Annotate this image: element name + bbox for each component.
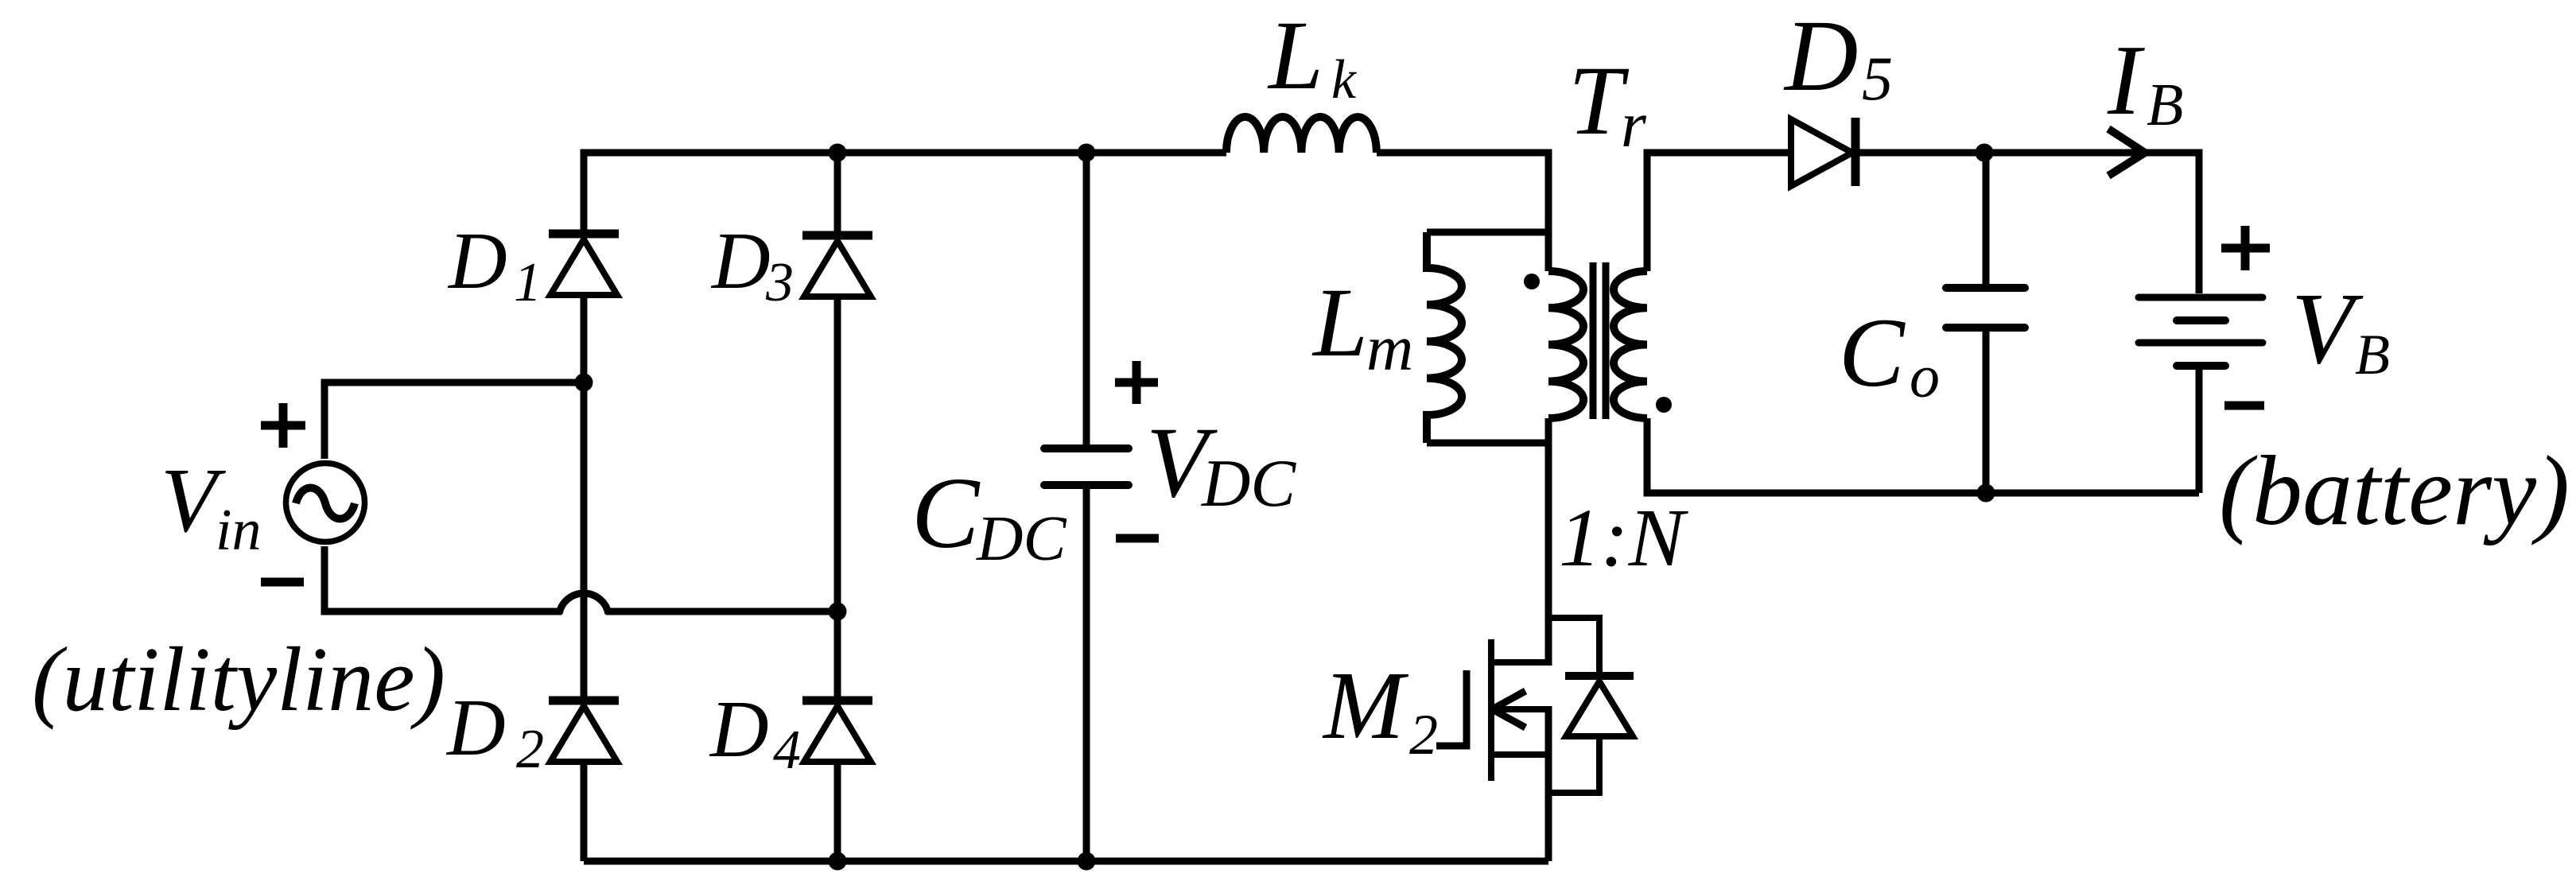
svg-text:D: D <box>710 216 771 306</box>
label VB <box>2291 272 2390 386</box>
svg-text:V: V <box>2291 272 2364 385</box>
svg-text:L: L <box>1267 1 1323 110</box>
transformer primary phase dot <box>1524 274 1540 289</box>
mosfet M2 drain wire from transformer <box>1545 418 1552 666</box>
node B junction dot (D3/D4 midpoint) <box>829 603 847 621</box>
svg-text:D: D <box>709 685 769 774</box>
svg-text:C: C <box>1839 298 1906 407</box>
transformer secondary phase dot <box>1656 397 1672 413</box>
wire from Lk to transformer primary top <box>1377 153 1548 271</box>
label D3 <box>710 216 794 313</box>
node junction dot Co bottom <box>1977 484 1995 503</box>
svg-text:m: m <box>1366 312 1413 384</box>
battery VB plates <box>2139 297 2263 366</box>
mosfet M2 drain lead <box>1491 659 1548 666</box>
svg-text:1:N: 1:N <box>1559 492 1689 584</box>
label VDC <box>1146 407 1296 521</box>
svg-text:2: 2 <box>516 719 544 780</box>
svg-text:M: M <box>1322 652 1409 759</box>
wire secondary bottom rail to battery <box>1647 418 2199 493</box>
wire D5 cathode to battery top <box>1855 153 2199 293</box>
diode D3 <box>802 235 872 297</box>
capacitor Co bottom lead <box>1983 328 1990 493</box>
label D5 <box>1783 0 1893 113</box>
wire Vin minus to node B <box>606 608 837 615</box>
label D4 <box>709 685 801 781</box>
mosfet M2 arrow <box>1495 691 1525 728</box>
svg-text:o: o <box>1910 344 1940 410</box>
node junction dot top CDC <box>1078 144 1096 162</box>
inductor Lk coil <box>1226 117 1377 153</box>
label D2 <box>445 683 544 780</box>
mosfet M2 gate lead <box>1436 670 1467 746</box>
wire mosfet source to bottom rail <box>1545 706 1552 861</box>
label M2 <box>1322 652 1438 767</box>
inductor Lm bottom wire <box>1427 440 1548 447</box>
svg-text:1: 1 <box>514 252 542 313</box>
svg-text:L: L <box>1311 268 1368 377</box>
svg-text:2: 2 <box>1409 703 1438 767</box>
label IB <box>2107 25 2183 138</box>
svg-text:(battery): (battery) <box>2219 437 2570 546</box>
label Vin <box>161 450 262 563</box>
transformer T1 secondary winding <box>1614 271 1647 418</box>
svg-text:DC: DC <box>1201 446 1296 521</box>
plus sign Vin <box>261 403 305 448</box>
minus sign VB <box>2224 402 2264 410</box>
wire node B down to D4 <box>834 611 841 697</box>
svg-text:4: 4 <box>773 720 801 781</box>
svg-text:C: C <box>911 456 981 569</box>
wire bottom rail <box>584 858 1548 865</box>
diode D4 <box>802 701 872 762</box>
plus sign VDC <box>1115 361 1158 404</box>
wire D3 top lead <box>834 153 841 231</box>
wire node A down to D2 <box>581 382 588 697</box>
wire top rail from D1 top to Lk <box>584 153 1226 230</box>
diode D1 <box>549 234 619 295</box>
body diode of M2 <box>1565 676 1634 736</box>
svg-text:D: D <box>445 683 506 773</box>
wire D2 to bottom rail <box>581 762 588 861</box>
svg-text:in: in <box>216 498 262 563</box>
node junction dot Co top <box>1976 144 1994 162</box>
label CDC <box>911 456 1067 574</box>
svg-text:B: B <box>2355 323 2390 386</box>
minus sign Vin <box>261 578 304 587</box>
node junction dot bottom D4 <box>829 852 847 871</box>
svg-text:(utilityline): (utilityline) <box>32 629 445 731</box>
wire D1 to node A <box>581 295 588 382</box>
transformer T1 core <box>1593 262 1606 419</box>
wire Vin minus lead <box>324 546 561 611</box>
body diode of M2 bottom lead <box>1548 736 1599 793</box>
mosfet M2 body lead <box>1491 706 1548 712</box>
svg-text:5: 5 <box>1862 44 1893 113</box>
inductor Lm coil <box>1427 232 1462 443</box>
node A junction dot (D1/D2 midpoint) <box>575 374 593 392</box>
capacitor Co top lead <box>1983 153 1990 284</box>
label D1 <box>447 216 542 313</box>
wire Vin plus lead <box>324 382 584 459</box>
diode D2 <box>549 701 619 762</box>
mosfet M2 channel bar <box>1488 639 1494 781</box>
svg-text:B: B <box>2147 72 2183 138</box>
plus sign VB <box>2221 226 2270 270</box>
wire battery bottom lead <box>2196 369 2203 493</box>
arrow IB current <box>2108 129 2145 176</box>
svg-text:DC: DC <box>976 503 1067 574</box>
node junction dot bottom CDC <box>1078 852 1096 871</box>
capacitor CDC top lead <box>1083 153 1090 448</box>
wire hop over D1-D2 branch <box>559 593 608 614</box>
mosfet M2 source lead <box>1491 751 1548 758</box>
minus sign VDC <box>1116 534 1159 543</box>
capacitor CDC plates <box>1044 448 1129 485</box>
source Vin circle <box>286 464 365 542</box>
wire D3 to node B <box>834 297 841 611</box>
svg-text:D: D <box>1783 0 1858 112</box>
transformer T1 primary winding <box>1548 271 1583 418</box>
inductor Lm top wire <box>1427 229 1548 236</box>
sine symbol inside Vin <box>296 488 355 519</box>
svg-text:k: k <box>1331 49 1358 111</box>
svg-text:I: I <box>2107 25 2145 136</box>
diode D5 <box>1791 118 1855 186</box>
svg-text:3: 3 <box>765 252 794 313</box>
capacitor Co plates <box>1946 288 2025 328</box>
capacitor CDC bottom lead <box>1083 485 1090 861</box>
wire D4 to bottom rail <box>834 762 841 861</box>
label Co <box>1839 298 1940 410</box>
label Lm <box>1311 268 1413 384</box>
svg-text:r: r <box>1621 88 1647 161</box>
label Lk <box>1267 1 1358 111</box>
label Tr <box>1568 46 1647 161</box>
body diode of M2 top lead <box>1548 618 1599 672</box>
wire secondary top to D5 anode <box>1647 153 1791 271</box>
node junction dot top D3 <box>829 144 847 162</box>
svg-text:D: D <box>447 216 507 306</box>
